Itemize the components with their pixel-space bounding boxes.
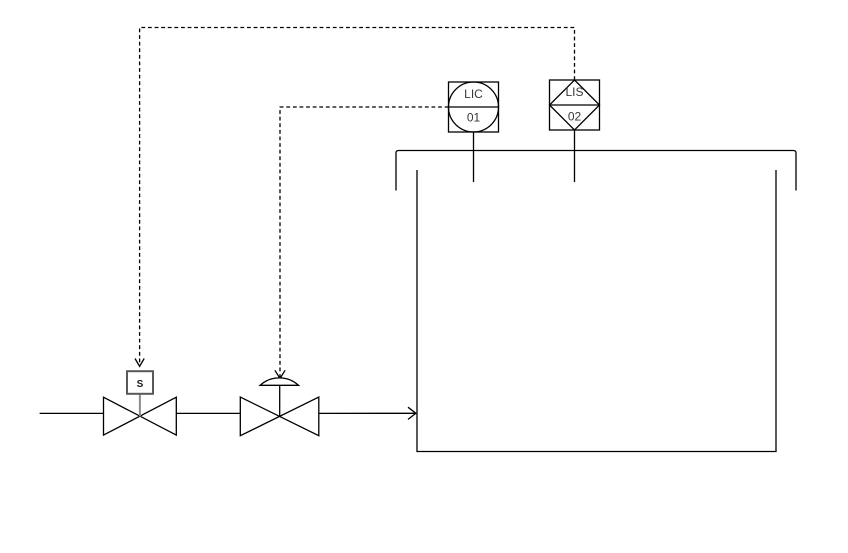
tank body — [417, 170, 776, 452]
wire LIC stem into tank — [473, 132, 475, 182]
instrument LIS 02 — [550, 80, 600, 130]
wire LIS stem into tank — [574, 130, 576, 182]
wire control valve stem — [279, 385, 281, 416]
wire solenoid stem — [139, 394, 141, 417]
svg-text:LIC: LIC — [464, 87, 483, 101]
pipe into tank with arrow — [319, 412, 416, 414]
svg-text:S: S — [137, 379, 144, 390]
pipe between valves — [176, 412, 240, 414]
solenoid actuator S box — [127, 371, 153, 394]
svg-text:01: 01 — [467, 111, 481, 125]
svg-text:02: 02 — [568, 109, 582, 123]
valve V1 (solenoid valve body) — [104, 397, 177, 435]
valve V2 (control valve body) — [240, 397, 318, 436]
signal line LIS-02 to solenoid valve (dashed) — [135, 28, 575, 367]
instrument LIC 01 — [449, 82, 499, 132]
pipe inlet segment — [40, 412, 104, 414]
svg-text:LIS: LIS — [565, 85, 583, 99]
diaphragm actuator dome — [260, 378, 299, 385]
signal line LIC-01 to control valve (dashed) — [275, 107, 449, 379]
tank lid — [396, 151, 796, 191]
